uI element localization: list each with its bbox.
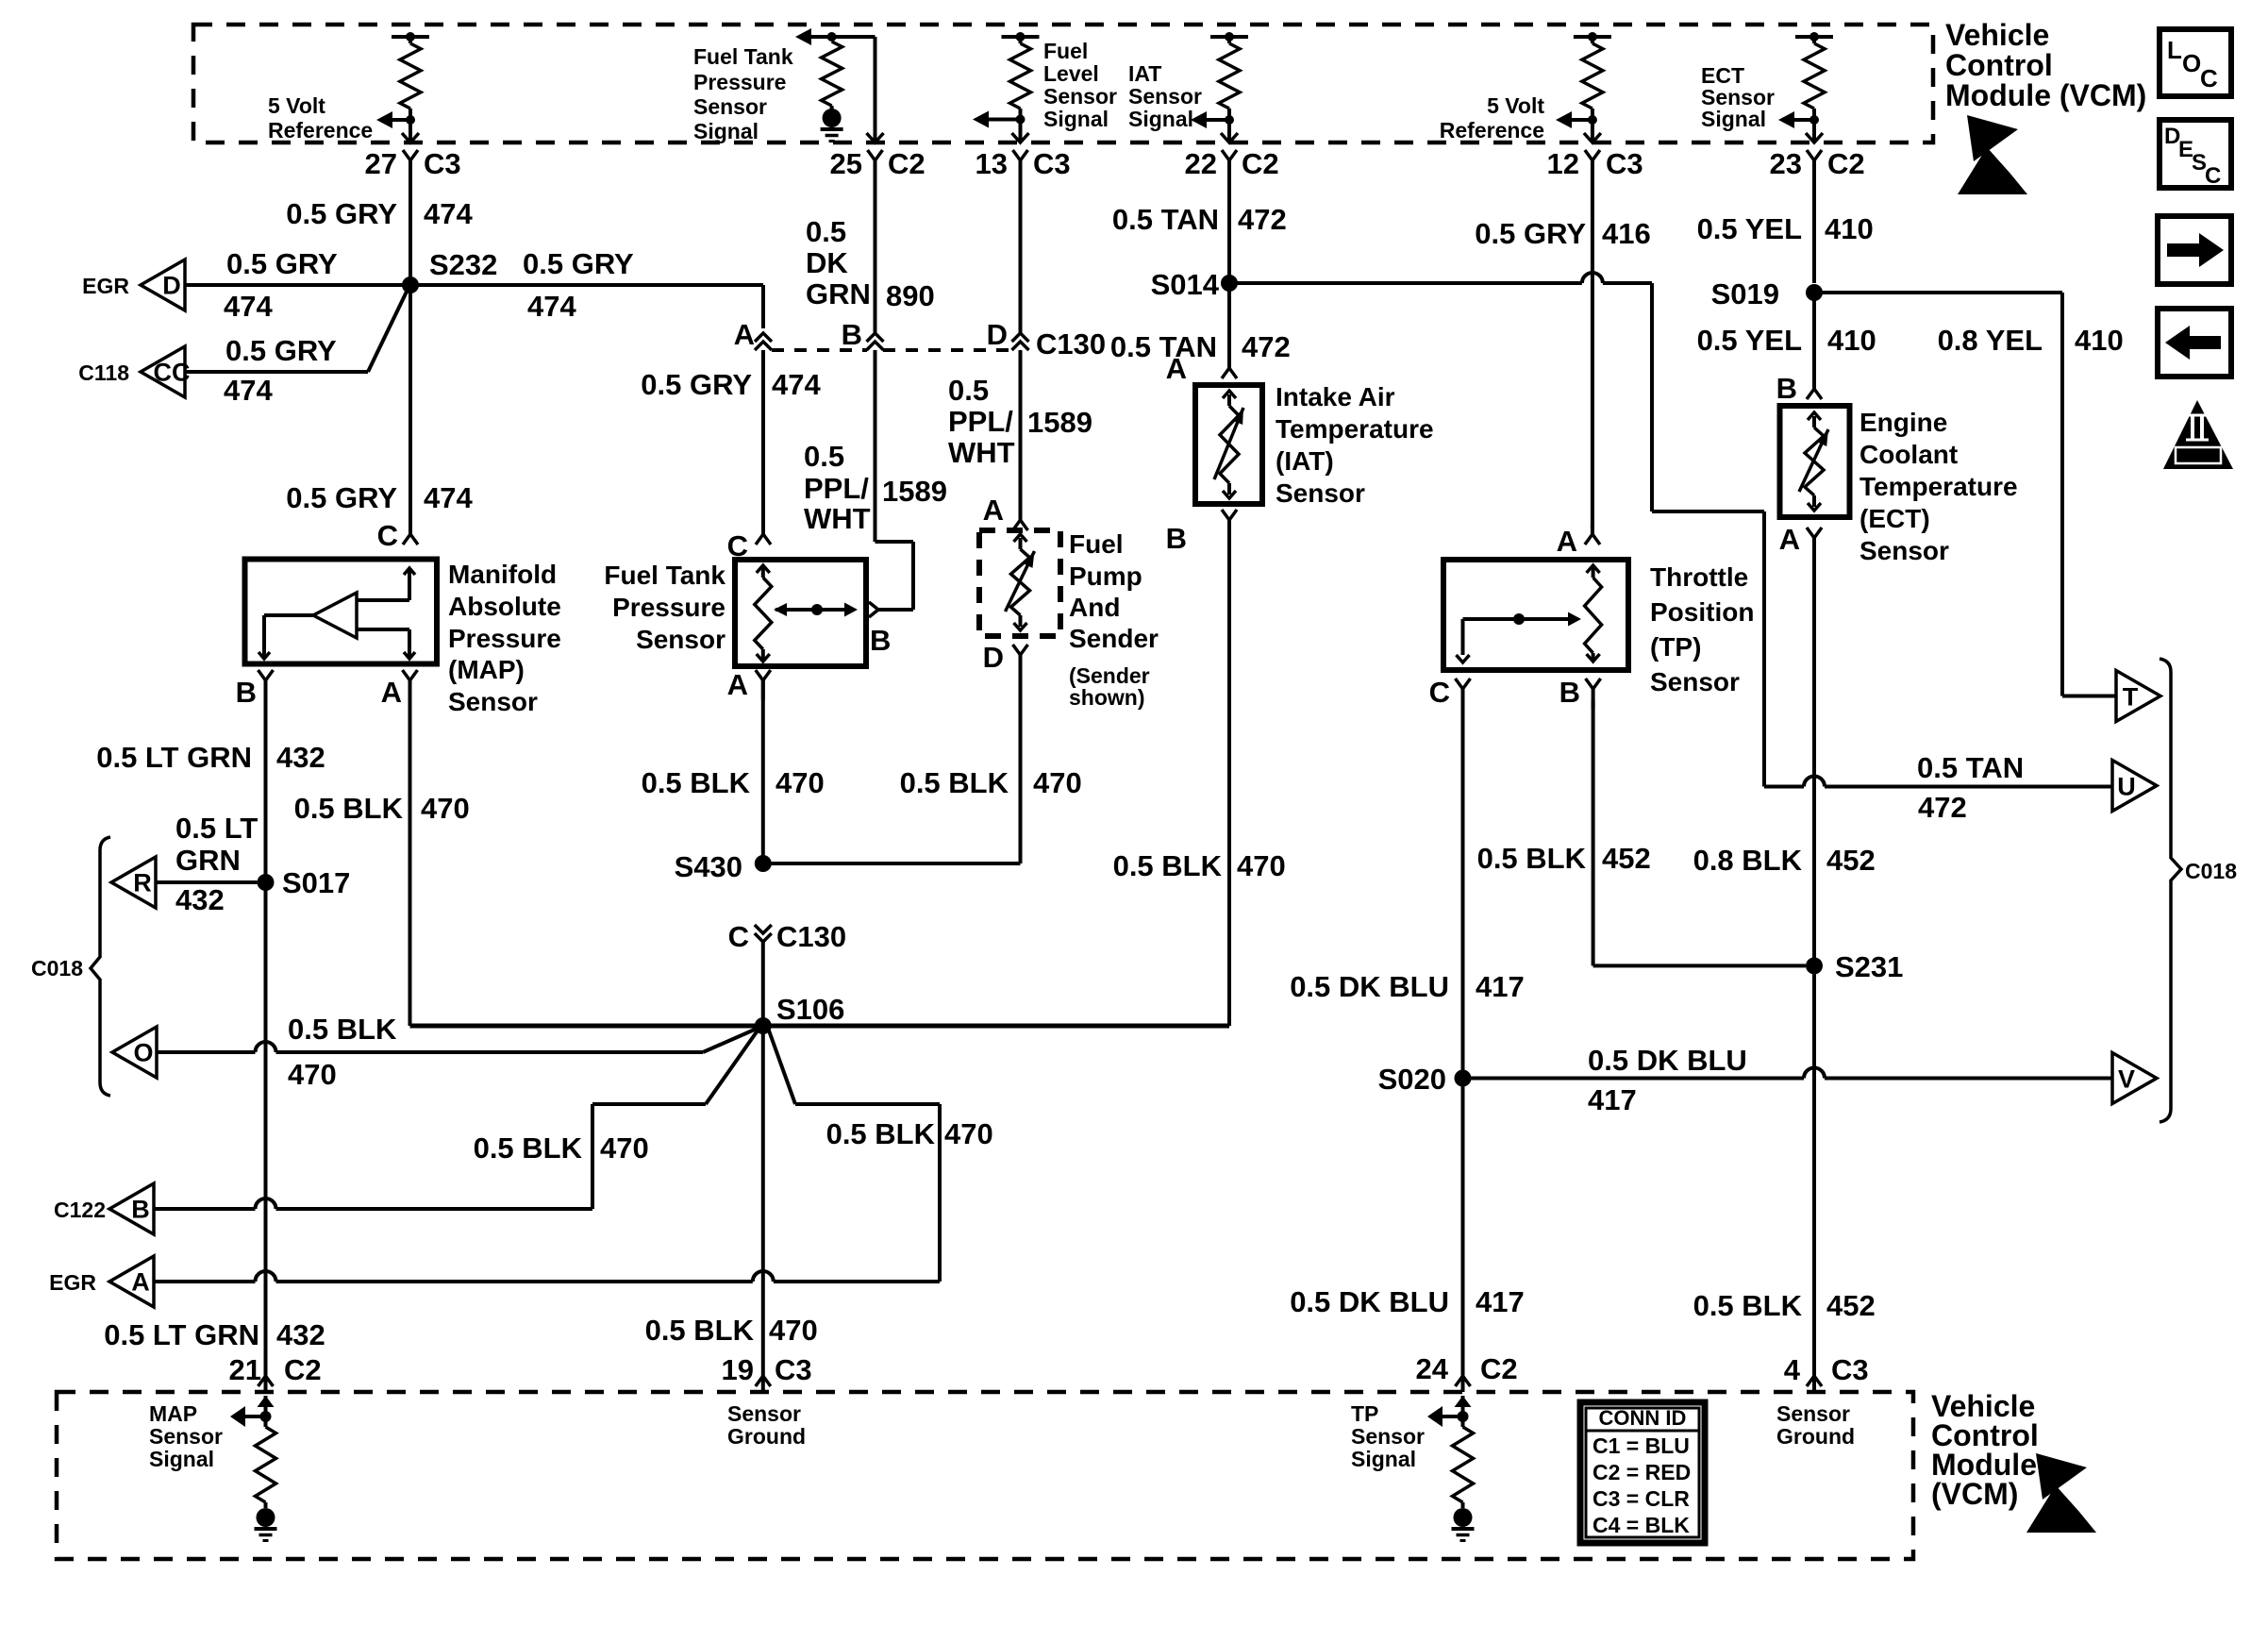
- svg-text:A: A: [1557, 525, 1577, 558]
- pin label 25 C2: [830, 147, 926, 180]
- svg-text:Sensor: Sensor: [448, 687, 538, 716]
- wire LT GRN 432 MAP-B column: [264, 700, 268, 1392]
- label 5 Volt Reference (right): [1440, 93, 1545, 142]
- FTP pin B connector (side): [869, 602, 888, 617]
- label pin D (fuel pump): [983, 641, 1004, 674]
- svg-text:Sensor: Sensor: [1276, 478, 1365, 508]
- pin label 23 C2: [1770, 147, 1865, 180]
- label 0.5 DK GRN 890: [806, 215, 935, 312]
- svg-text:Signal: Signal: [693, 119, 759, 143]
- ESD symbol top: [1958, 115, 2027, 194]
- TP sensor signal arrow: [1427, 1406, 1463, 1427]
- svg-text:474: 474: [224, 374, 273, 407]
- svg-text:470: 470: [769, 1314, 818, 1347]
- svg-text:EGR: EGR: [49, 1270, 96, 1295]
- label Sensor Ground (pin 19): [727, 1401, 806, 1449]
- svg-text:410: 410: [1825, 212, 1874, 245]
- svg-text:0.5 YEL: 0.5 YEL: [1697, 324, 1802, 357]
- connector T triangle: [2116, 671, 2160, 722]
- ECT pin A connector: [1807, 528, 1822, 558]
- svg-text:472: 472: [1238, 203, 1287, 236]
- label 0.5 YEL 410 (upper): [1697, 212, 1874, 245]
- svg-text:B: B: [870, 624, 891, 657]
- wire BLK 470 C122 row: [154, 1199, 592, 1209]
- svg-text:432: 432: [276, 741, 325, 774]
- svg-text:0.5 TAN: 0.5 TAN: [1112, 203, 1219, 236]
- svg-text:Signal: Signal: [1128, 107, 1193, 131]
- pin 22 C2 connector pin: [1222, 150, 1237, 170]
- svg-text:CC: CC: [154, 359, 191, 387]
- svg-text:B: B: [1559, 676, 1580, 709]
- label 0.5 GRY 474 (C118 branch): [224, 334, 337, 407]
- label pin A (TP): [1557, 525, 1577, 558]
- svg-text:D: D: [987, 318, 1008, 351]
- svg-text:5 Volt: 5 Volt: [268, 93, 325, 118]
- label pin A (fuel pump): [983, 494, 1004, 527]
- MAP pin B connector: [258, 670, 274, 700]
- svg-text:Signal: Signal: [149, 1447, 214, 1471]
- svg-text:470: 470: [944, 1117, 993, 1150]
- svg-text:470: 470: [421, 792, 470, 825]
- svg-text:0.8 YEL: 0.8 YEL: [1938, 324, 2043, 357]
- IAT thermistor: [1214, 391, 1243, 498]
- svg-text:Sensor: Sensor: [727, 1401, 801, 1426]
- splice S014: [1151, 268, 1238, 301]
- pin 24 chevron: [1456, 1376, 1471, 1386]
- pin 12 down-arrow: [1584, 133, 1601, 142]
- svg-text:C3: C3: [1033, 147, 1071, 180]
- svg-text:C2: C2: [1480, 1352, 1518, 1385]
- ECT signal arrow: [1778, 111, 1814, 128]
- svg-text:C3: C3: [1606, 147, 1643, 180]
- wire BLK 470 C130-C to S106: [761, 942, 765, 1026]
- label pin B (C130): [842, 318, 862, 351]
- connector EGR-D triangle: [141, 260, 185, 310]
- label 0.5 GRY 474 (right branch): [523, 247, 634, 323]
- label C018 (left): [31, 956, 83, 981]
- svg-text:S017: S017: [282, 866, 350, 899]
- svg-text:0.5 LT GRN: 0.5 LT GRN: [104, 1318, 259, 1351]
- svg-text:C2: C2: [1242, 147, 1279, 180]
- label pin C (TP): [1429, 676, 1450, 709]
- svg-text:13: 13: [976, 147, 1008, 180]
- svg-text:B: B: [842, 318, 862, 351]
- svg-text:0.5 BLK: 0.5 BLK: [294, 792, 404, 825]
- svg-text:0.5 BLK: 0.5 BLK: [1693, 1289, 1803, 1322]
- svg-text:474: 474: [527, 290, 576, 323]
- svg-text:C3: C3: [424, 147, 461, 180]
- pin 12 C3 connector pin: [1585, 150, 1600, 170]
- svg-text:Manifold: Manifold: [448, 560, 557, 589]
- label 5 Volt Reference (left): [268, 93, 373, 142]
- wire 474 below C130-A to fuel tank C: [761, 350, 765, 523]
- svg-text:0.5 TAN: 0.5 TAN: [1110, 330, 1217, 363]
- svg-text:Intake Air: Intake Air: [1276, 382, 1395, 411]
- svg-text:B: B: [1776, 372, 1797, 405]
- label Sensor Ground (pin 4): [1776, 1401, 1855, 1449]
- pin 23 down-arrow: [1806, 133, 1823, 142]
- svg-text:Fuel Tank: Fuel Tank: [693, 44, 793, 69]
- svg-text:O: O: [133, 1039, 153, 1067]
- label pin B (IAT): [1166, 522, 1187, 555]
- ECT thermistor: [1799, 412, 1828, 511]
- svg-text:O: O: [2182, 49, 2201, 77]
- svg-text:474: 474: [424, 197, 473, 230]
- wire DK GRN 890 pin 25 to C130-B: [874, 170, 877, 333]
- svg-text:Level: Level: [1043, 61, 1099, 86]
- svg-text:470: 470: [288, 1058, 337, 1091]
- connector V triangle: [2112, 1053, 2157, 1104]
- ECT pin B connector: [1807, 377, 1822, 399]
- label pin A (C130): [734, 318, 755, 351]
- wire 0.8 YEL 410 S019 to T arrow: [1814, 293, 2116, 696]
- label 0.5 BLK 452: [1477, 842, 1651, 875]
- icon right-arrow box: [2158, 216, 2231, 284]
- label pin A (MAP): [381, 676, 402, 709]
- pin 25 down-arrow: [867, 133, 884, 142]
- svg-text:(ECT): (ECT): [1859, 504, 1930, 533]
- svg-text:GRN: GRN: [175, 844, 241, 877]
- label Fuel Tank Pressure Sensor: [604, 561, 725, 654]
- junction dot (MAP signal): [260, 1411, 272, 1422]
- svg-text:B: B: [1166, 522, 1187, 555]
- svg-text:0.5 BLK: 0.5 BLK: [900, 766, 1009, 799]
- svg-text:Module (VCM): Module (VCM): [1945, 78, 2146, 112]
- svg-text:0.5 LT: 0.5 LT: [175, 812, 258, 845]
- svg-text:Sensor: Sensor: [1776, 1401, 1850, 1426]
- svg-text:A: A: [983, 494, 1004, 527]
- FTP potentiometer: [755, 565, 858, 662]
- wire PPL/WHT 1589 C130-B to fuel tank B (jog): [876, 350, 914, 610]
- pin 19 chevron: [756, 1376, 771, 1386]
- label pin A (FTP): [727, 668, 748, 701]
- svg-text:452: 452: [1826, 844, 1876, 877]
- svg-text:C4 = BLK: C4 = BLK: [1593, 1513, 1690, 1537]
- pin 4 chevron: [1807, 1376, 1822, 1386]
- svg-text:0.5 BLK: 0.5 BLK: [1477, 842, 1587, 875]
- label 0.5 TAN 472 (lower): [1110, 330, 1291, 363]
- label 0.5 BLK 470 (MAP A): [294, 792, 470, 825]
- svg-text:A: A: [727, 668, 748, 701]
- svg-text:S020: S020: [1378, 1063, 1446, 1096]
- pin 25 C2 connector pin: [868, 150, 883, 170]
- pin 27 down-arrow at box edge: [402, 133, 419, 142]
- svg-text:shown): shown): [1069, 685, 1145, 710]
- Vehicle Control Module (VCM) label bottom-right: [1931, 1389, 2039, 1511]
- ground symbol (VCM internal): [821, 109, 843, 142]
- CONN ID table: [1580, 1402, 1705, 1543]
- label 0.5 DK BLU 417 (V arrow): [1588, 1044, 1747, 1116]
- wire pin 25 inside box: [874, 37, 877, 141]
- label C018 (right): [2185, 859, 2237, 883]
- svg-text:U: U: [2117, 773, 2136, 801]
- svg-text:0.5 BLK: 0.5 BLK: [642, 766, 751, 799]
- svg-text:0.5 GRY: 0.5 GRY: [226, 247, 338, 280]
- svg-text:A: A: [1166, 352, 1187, 385]
- label Manifold Absolute Pressure (MAP) Sensor: [448, 560, 561, 716]
- svg-text:417: 417: [1476, 1285, 1525, 1318]
- wire S430 to fuel pump D column: [763, 862, 1021, 865]
- svg-text:24: 24: [1416, 1352, 1449, 1385]
- label 0.5 BLK 470 (EGR branch): [826, 1117, 993, 1150]
- label pin B (TP): [1559, 676, 1580, 709]
- label ECT Sensor Signal: [1701, 63, 1775, 131]
- svg-text:EGR: EGR: [82, 274, 129, 298]
- MAP sensor signal arrow: [230, 1406, 266, 1427]
- svg-text:IAT: IAT: [1128, 61, 1161, 86]
- label 0.5 GRY 474 (above MAP): [286, 481, 473, 514]
- svg-text:416: 416: [1602, 217, 1651, 250]
- pin label 27 C3: [365, 147, 461, 180]
- label 0.5 BLK 470 (O branch): [288, 1013, 397, 1091]
- MAP pin C connector: [403, 523, 418, 545]
- label 0.5 YEL 410 (lower): [1697, 324, 1876, 357]
- svg-text:Absolute: Absolute: [448, 592, 561, 621]
- pin label 4 C3: [1784, 1353, 1869, 1386]
- svg-text:0.5 GRY: 0.5 GRY: [286, 197, 397, 230]
- svg-text:Sensor: Sensor: [149, 1424, 223, 1449]
- wire S232 right branch 474: [410, 285, 763, 328]
- svg-text:C: C: [1429, 676, 1450, 709]
- C130 pin B chevrons: [867, 333, 884, 350]
- VCM 5V reference pull-up resistor (pin 12 circuit): [1574, 32, 1611, 141]
- wire PPL/WHT 1589 pin 13 to C130-D: [1019, 170, 1023, 333]
- splice S232: [402, 248, 497, 293]
- svg-text:(VCM): (VCM): [1931, 1477, 2018, 1511]
- fuel pump pin D connector: [1013, 645, 1028, 675]
- VCM fuel level signal pull-up resistor: [1002, 32, 1040, 141]
- svg-text:Sensor: Sensor: [1128, 84, 1202, 109]
- label pin C (C130): [728, 920, 749, 953]
- svg-text:PPL/: PPL/: [804, 472, 869, 505]
- svg-text:432: 432: [175, 883, 225, 916]
- fuel tank pressure pin C connector: [756, 523, 771, 545]
- svg-text:452: 452: [1826, 1289, 1876, 1322]
- svg-text:(IAT): (IAT): [1276, 446, 1334, 476]
- label (Sender shown): [1069, 663, 1150, 710]
- pin label 19 C3: [722, 1353, 812, 1386]
- C130 pin A chevrons: [755, 333, 772, 350]
- wire 474 vertical S232 to MAP pin C: [409, 285, 412, 523]
- svg-text:432: 432: [276, 1318, 325, 1351]
- junction dot (TP signal): [1458, 1411, 1469, 1422]
- label pin B (FTP): [870, 624, 891, 657]
- svg-text:Signal: Signal: [1701, 107, 1766, 131]
- svg-text:452: 452: [1602, 842, 1651, 875]
- svg-text:0.5: 0.5: [948, 374, 989, 407]
- svg-text:Reference: Reference: [1440, 118, 1544, 142]
- wire DK BLU 417 S020 to V arrow: [1463, 1068, 2114, 1079]
- ESD symbol bottom: [2026, 1453, 2096, 1533]
- TP pin C connector: [1456, 679, 1471, 709]
- svg-text:C122: C122: [54, 1198, 106, 1222]
- label C130 (top connector): [1036, 327, 1106, 360]
- svg-text:Fuel: Fuel: [1069, 529, 1124, 559]
- svg-text:890: 890: [886, 279, 935, 312]
- pin 21 chevron: [258, 1376, 274, 1386]
- MAP internal amplifier: [258, 568, 415, 659]
- svg-text:0.5 BLK: 0.5 BLK: [645, 1314, 755, 1347]
- label 0.8 YEL 410: [1938, 324, 2124, 357]
- svg-text:21: 21: [229, 1353, 261, 1386]
- splice S430: [675, 850, 772, 883]
- connector U triangle: [2112, 761, 2157, 812]
- svg-text:S430: S430: [675, 850, 742, 883]
- svg-text:C2: C2: [284, 1353, 322, 1386]
- svg-text:Pressure: Pressure: [612, 593, 725, 622]
- svg-text:MAP: MAP: [149, 1401, 197, 1426]
- svg-text:Fuel Tank: Fuel Tank: [604, 561, 725, 590]
- svg-text:0.5 GRY: 0.5 GRY: [641, 368, 752, 401]
- ground symbol (MAP signal): [255, 1508, 277, 1541]
- wire TAN 472 pin 22 to S014: [1227, 170, 1231, 283]
- IAT sensor box: [1195, 385, 1262, 504]
- svg-text:T: T: [2123, 683, 2139, 712]
- wire BLK 470 IAT-B down to ground bus: [1227, 520, 1231, 1026]
- label pin D (C130): [987, 318, 1008, 351]
- label Intake Air Temperature (IAT) Sensor: [1276, 382, 1434, 508]
- connector R triangle: [111, 857, 156, 908]
- FTP pin A connector: [756, 670, 771, 700]
- label 0.5 LT GRN 432 (pin 21): [104, 1318, 325, 1351]
- svg-text:OBD II: OBD II: [2176, 448, 2220, 464]
- svg-text:C2: C2: [1827, 147, 1865, 180]
- Fuel Tank Pressure Sensor Signal arrow: [795, 28, 813, 45]
- svg-text:And: And: [1069, 593, 1120, 622]
- svg-text:470: 470: [600, 1131, 649, 1165]
- fuel pump sender variable resistor: [1006, 534, 1035, 630]
- svg-text:470: 470: [775, 766, 825, 799]
- svg-text:Pressure: Pressure: [448, 624, 561, 653]
- svg-text:C118: C118: [78, 360, 129, 385]
- IAT signal arrow: [1191, 111, 1229, 128]
- svg-text:470: 470: [1033, 766, 1082, 799]
- svg-text:Sensor: Sensor: [636, 625, 725, 654]
- svg-text:S231: S231: [1835, 950, 1903, 983]
- label 0.5 LT GRN 432 (upper): [96, 741, 325, 774]
- pin 22 down-arrow: [1221, 133, 1238, 142]
- svg-text:Sensor: Sensor: [1859, 536, 1949, 565]
- label Fuel Tank Pressure Sensor Signal: [693, 44, 793, 143]
- label C118: [78, 360, 129, 385]
- pin label 24 C2: [1416, 1352, 1518, 1385]
- wire BLK 470 FTP-A to S430: [761, 680, 765, 863]
- label C130 (lower connector): [776, 920, 846, 953]
- VCM top box (dashed): [193, 25, 1933, 142]
- label Throttle Position (TP) Sensor: [1650, 562, 1754, 696]
- TP pin B connector: [1586, 679, 1601, 709]
- svg-text:417: 417: [1476, 970, 1525, 1003]
- TP sensor box: [1443, 560, 1628, 670]
- pin label 13 C3: [976, 147, 1071, 180]
- icon LOC box: [2160, 29, 2231, 96]
- svg-text:Pressure: Pressure: [693, 70, 786, 94]
- svg-text:Sensor: Sensor: [1351, 1424, 1425, 1449]
- wire YEL 410 S019 to ECT-B: [1812, 293, 1816, 383]
- label Fuel Pump And Sender: [1069, 529, 1159, 653]
- svg-text:4: 4: [1784, 1353, 1801, 1386]
- wire S232 to EGR connector: [185, 283, 410, 287]
- svg-text:Signal: Signal: [1351, 1447, 1416, 1471]
- svg-text:S014: S014: [1151, 268, 1220, 301]
- VCM fuel tank pressure signal pull-down resistor: [811, 32, 876, 110]
- connector C122-B triangle: [109, 1183, 154, 1234]
- wire BLK 452 TP-B to S231: [1593, 700, 1806, 965]
- pin 23 C2 connector pin: [1807, 150, 1822, 170]
- IAT pin A connector: [1222, 357, 1237, 378]
- splice S019: [1711, 277, 1823, 310]
- svg-text:Fuel: Fuel: [1043, 39, 1088, 63]
- Vehicle Control Module (VCM) label top-right: [1945, 18, 2146, 112]
- svg-text:C: C: [728, 920, 749, 953]
- VCM 5V reference pull-up resistor (pin 27 circuit): [392, 32, 429, 141]
- svg-text:1589: 1589: [1027, 406, 1092, 439]
- wire BLK 452 ECT-A to S231 to pin 4: [1812, 538, 1816, 1392]
- label Engine Coolant Temperature (ECT) Sensor: [1859, 408, 2018, 565]
- label 0.5 GRY 474 (below C130 A): [641, 368, 821, 401]
- svg-text:0.5 GRY: 0.5 GRY: [1475, 217, 1586, 250]
- wire DK BLU 417 TP-C to S020: [1461, 700, 1465, 1392]
- svg-text:GRN: GRN: [806, 277, 871, 310]
- wire S106 to C122 riser: [592, 1031, 758, 1209]
- label 0.5 PPL/WHT 1589 (fuel tank): [804, 440, 947, 535]
- svg-text:Sender: Sender: [1069, 624, 1159, 653]
- svg-text:C018: C018: [31, 956, 83, 981]
- wire PPL/WHT 1589 C130-D to fuel pump A: [1019, 350, 1023, 520]
- svg-text:Coolant: Coolant: [1859, 440, 1958, 469]
- svg-text:A: A: [131, 1268, 150, 1297]
- IAT pin B connector: [1222, 510, 1237, 540]
- svg-text:410: 410: [2075, 324, 2124, 357]
- svg-text:C3: C3: [1831, 1353, 1869, 1386]
- label EGR: [82, 274, 129, 298]
- label 0.5 BLK 470 (C122 branch): [474, 1131, 649, 1165]
- fuel pump and sender box (dashed): [979, 530, 1060, 636]
- icon left-arrow box: [2158, 309, 2231, 377]
- svg-text:0.5 GRY: 0.5 GRY: [286, 481, 397, 514]
- icon OBD II triangle: [2163, 400, 2233, 469]
- svg-text:C130: C130: [1036, 327, 1106, 360]
- svg-text:R: R: [133, 869, 152, 897]
- connector O triangle: [112, 1027, 157, 1078]
- svg-text:Pump: Pump: [1069, 562, 1142, 591]
- label 0.5 LT GRN 432 (R branch): [175, 812, 258, 916]
- connector EGR-A triangle: [109, 1256, 154, 1307]
- label 0.5 DK BLU 417 (upper): [1290, 970, 1525, 1003]
- label pin B (MAP): [236, 676, 257, 709]
- splice S106: [755, 993, 845, 1034]
- svg-text:0.5 BLK: 0.5 BLK: [826, 1117, 936, 1150]
- connector C118-CC triangle: [141, 346, 191, 397]
- TP potentiometer: [1457, 565, 1602, 662]
- pin 13 C3 connector pin: [1013, 150, 1028, 170]
- svg-text:474: 474: [772, 368, 821, 401]
- MAP pin A connector: [403, 670, 418, 700]
- svg-text:B: B: [131, 1196, 150, 1224]
- wire YEL 410 pin 23 to S019: [1812, 170, 1816, 283]
- svg-text:472: 472: [1918, 791, 1967, 824]
- label 0.5 GRY 416: [1475, 217, 1650, 250]
- C130 pin C chevrons (down): [755, 925, 772, 942]
- pin label 21 C2: [229, 1353, 322, 1386]
- svg-text:0.5 TAN: 0.5 TAN: [1917, 751, 2024, 784]
- svg-text:D: D: [983, 641, 1004, 674]
- svg-text:C: C: [2205, 163, 2221, 189]
- svg-text:Sensor: Sensor: [1043, 84, 1117, 109]
- label 0.5 BLK 470 (IAT): [1113, 849, 1286, 882]
- svg-text:0.5 BLK: 0.5 BLK: [474, 1131, 583, 1165]
- svg-text:19: 19: [722, 1353, 754, 1386]
